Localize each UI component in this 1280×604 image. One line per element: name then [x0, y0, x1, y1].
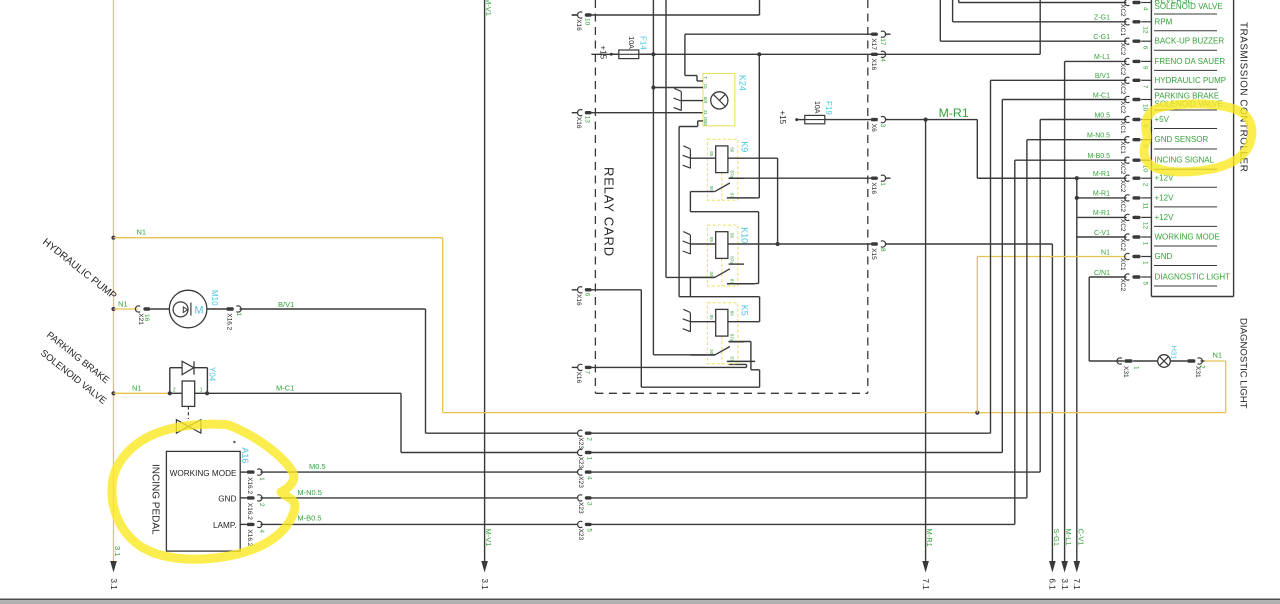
svg-text:13: 13 [583, 116, 590, 124]
svg-text:1: 1 [586, 457, 593, 461]
svg-text:X23: X23 [577, 457, 584, 469]
svg-text:3: 3 [586, 502, 593, 506]
svg-text:7.1: 7.1 [921, 579, 930, 591]
svg-text:C/N1: C/N1 [1094, 270, 1110, 277]
svg-text:6.1: 6.1 [1048, 579, 1057, 591]
svg-text:M-B0.5: M-B0.5 [297, 514, 321, 523]
svg-text:M-V1: M-V1 [484, 529, 493, 547]
svg-text:A16: A16 [240, 447, 250, 463]
svg-text:M-R1: M-R1 [925, 529, 934, 547]
svg-text:SOLENOID VALVE: SOLENOID VALVE [1155, 2, 1223, 11]
svg-text:N1: N1 [118, 299, 128, 308]
svg-text:XC2: XC2 [1119, 162, 1126, 175]
svg-text:6: 6 [583, 293, 590, 297]
svg-text:2: 2 [258, 503, 265, 507]
svg-text:LAMP.: LAMP. [213, 521, 237, 530]
svg-text:2: 2 [586, 437, 593, 441]
svg-text:17: 17 [879, 38, 886, 46]
svg-text:12: 12 [1142, 26, 1149, 34]
svg-text:N1: N1 [1101, 249, 1110, 256]
svg-text:X16: X16 [575, 19, 582, 31]
svg-text:M-B0.5: M-B0.5 [1087, 153, 1110, 160]
svg-text:T: T [703, 76, 708, 79]
svg-text:M-R1: M-R1 [1093, 191, 1110, 198]
svg-text:86: 86 [730, 147, 735, 153]
svg-text:N1: N1 [1213, 350, 1223, 359]
svg-text:+15: +15 [598, 46, 607, 60]
svg-text:+5V: +5V [1155, 115, 1170, 124]
svg-text:C-V1: C-V1 [1094, 230, 1110, 237]
svg-text:85: 85 [709, 315, 714, 321]
svg-text:12: 12 [1142, 222, 1149, 230]
svg-text:30: 30 [709, 186, 714, 192]
svg-text:M: M [194, 305, 203, 317]
svg-text:X6: X6 [870, 124, 877, 132]
svg-text:XC2: XC2 [1119, 239, 1126, 252]
svg-text:S-G1: S-G1 [1052, 529, 1061, 547]
svg-text:C-G1: C-G1 [1093, 34, 1110, 41]
svg-text:GND: GND [218, 495, 236, 504]
svg-text:X17: X17 [870, 38, 877, 50]
svg-text:XC2: XC2 [1119, 101, 1126, 114]
svg-text:K10: K10 [739, 227, 749, 243]
svg-text:X16.2: X16.2 [246, 477, 253, 494]
svg-text:87a: 87a [730, 256, 735, 264]
svg-text:9: 9 [1142, 66, 1149, 70]
svg-text:1: 1 [879, 182, 886, 186]
svg-text:1: 1 [1142, 242, 1149, 246]
svg-text:HYDRAULIC PUMP: HYDRAULIC PUMP [1155, 76, 1227, 85]
svg-text:M-L1: M-L1 [1064, 529, 1073, 546]
svg-text:XC2: XC2 [1119, 43, 1126, 56]
svg-text:WORKING MODE: WORKING MODE [1155, 233, 1220, 242]
svg-text:WORKING MODE: WORKING MODE [170, 469, 237, 478]
svg-text:7: 7 [1142, 85, 1149, 89]
svg-text:XC2: XC2 [1119, 279, 1126, 292]
svg-text:B/V1: B/V1 [278, 300, 294, 309]
svg-text:10A: 10A [627, 36, 634, 49]
svg-text:K24: K24 [738, 75, 748, 91]
svg-text:DIAGNOSTIC LIGHT: DIAGNOSTIC LIGHT [1237, 318, 1248, 409]
svg-text:87a: 87a [730, 334, 735, 342]
svg-text:C-V1: C-V1 [1076, 529, 1085, 546]
svg-text:4: 4 [1142, 7, 1149, 11]
svg-text:5: 5 [586, 528, 593, 532]
svg-text:M-C1: M-C1 [276, 384, 294, 393]
svg-text:GND SENSOR: GND SENSOR [1155, 135, 1209, 144]
svg-text:GND: GND [1155, 252, 1173, 261]
svg-text:M-N0.5: M-N0.5 [297, 488, 322, 497]
svg-text:M0.5: M0.5 [1094, 112, 1110, 119]
svg-text:4: 4 [879, 58, 886, 62]
svg-text:M10: M10 [210, 290, 219, 306]
svg-text:10A: 10A [813, 101, 820, 114]
svg-text:M-R1: M-R1 [1093, 171, 1110, 178]
svg-text:Z-G1: Z-G1 [1094, 15, 1110, 22]
svg-text:50f: 50f [703, 97, 708, 104]
svg-text:M-V1: M-V1 [484, 0, 493, 16]
svg-text:3.1: 3.1 [113, 546, 122, 556]
svg-text:X23: X23 [577, 529, 584, 541]
svg-text:85: 85 [709, 151, 714, 157]
svg-text:30: 30 [709, 349, 714, 355]
svg-text:X23: X23 [577, 502, 584, 514]
svg-text:1: 1 [200, 387, 203, 393]
svg-text:30: 30 [709, 271, 714, 277]
svg-text:XC2: XC2 [1119, 82, 1126, 95]
svg-text:X16: X16 [870, 182, 877, 194]
svg-text:M-R1: M-R1 [939, 106, 969, 120]
svg-text:M-N0.5: M-N0.5 [1087, 133, 1110, 140]
svg-text:1: 1 [258, 477, 265, 481]
svg-text:K5: K5 [739, 305, 749, 316]
svg-text:87a: 87a [730, 170, 735, 178]
svg-text:DIAGNOSTIC LIGHT: DIAGNOSTIC LIGHT [1155, 273, 1231, 282]
svg-text:5: 5 [1142, 282, 1149, 286]
svg-text:DB5: DB5 [703, 117, 708, 126]
svg-text:2: 2 [1142, 183, 1149, 187]
svg-text:X16: X16 [575, 372, 582, 384]
svg-text:4: 4 [586, 476, 593, 480]
svg-text:1: 1 [1133, 366, 1140, 370]
svg-text:7.1: 7.1 [1072, 579, 1081, 591]
svg-text:X16.2: X16.2 [226, 313, 233, 330]
svg-text:X23: X23 [577, 476, 584, 488]
svg-text:B/V1: B/V1 [1095, 73, 1110, 80]
svg-text:XC1: XC1 [1119, 23, 1126, 36]
svg-text:K9: K9 [739, 141, 749, 152]
svg-text:8: 8 [879, 248, 886, 252]
svg-text:X16: X16 [870, 59, 877, 71]
svg-text:X16: X16 [575, 294, 582, 306]
svg-text:N1: N1 [137, 228, 147, 237]
svg-text:+12V: +12V [1155, 213, 1175, 222]
svg-text:XC1: XC1 [1119, 141, 1126, 154]
svg-text:XC2: XC2 [1119, 4, 1126, 17]
svg-text:6: 6 [1142, 46, 1149, 50]
svg-text:2: 2 [173, 387, 176, 393]
svg-text:3: 3 [879, 124, 886, 128]
svg-text:4: 4 [258, 529, 265, 533]
svg-text:1: 1 [1142, 261, 1149, 265]
svg-text:F19: F19 [824, 101, 833, 115]
svg-text:+15: +15 [778, 111, 787, 125]
svg-text:XC2: XC2 [1119, 180, 1126, 193]
svg-text:M-R1: M-R1 [1093, 210, 1110, 217]
svg-text:10: 10 [583, 18, 590, 26]
svg-text:Y04: Y04 [208, 367, 217, 382]
svg-text:X21: X21 [137, 313, 144, 325]
svg-text:87: 87 [730, 356, 735, 362]
svg-text:X16.2: X16.2 [246, 503, 253, 520]
svg-text:XC2: XC2 [1119, 199, 1126, 212]
svg-text:M-L1: M-L1 [1094, 54, 1110, 61]
svg-text:X16: X16 [575, 117, 582, 129]
svg-text:X16.2: X16.2 [246, 529, 253, 546]
svg-text:INCING PEDAL: INCING PEDAL [150, 464, 161, 535]
svg-text:RPM: RPM [1155, 17, 1173, 26]
svg-text:+12V: +12V [1155, 193, 1175, 202]
svg-text:85: 85 [709, 237, 714, 243]
svg-text:86: 86 [730, 311, 735, 317]
svg-text:INCING SIGNAL: INCING SIGNAL [1155, 156, 1215, 165]
svg-text:11: 11 [1142, 202, 1149, 209]
svg-text:FRENO DA SAUER: FRENO DA SAUER [1155, 57, 1226, 66]
svg-text:87: 87 [730, 193, 735, 199]
svg-text:86: 86 [730, 233, 735, 239]
svg-text:16: 16 [143, 314, 150, 322]
svg-text:3.1: 3.1 [1060, 579, 1069, 591]
svg-text:XC2: XC2 [1119, 219, 1126, 232]
svg-text:F14: F14 [638, 36, 647, 50]
svg-text:87: 87 [730, 279, 735, 285]
svg-text:XC1: XC1 [1119, 121, 1126, 134]
svg-text:N1: N1 [132, 384, 142, 393]
svg-text:X23: X23 [577, 437, 584, 449]
svg-text:M-C1: M-C1 [1093, 92, 1110, 99]
svg-text:1: 1 [235, 313, 242, 317]
svg-text:XC2: XC2 [1119, 63, 1126, 76]
svg-text:7: 7 [583, 370, 590, 374]
svg-text:XC1: XC1 [1119, 258, 1126, 271]
svg-text:X15: X15 [870, 248, 877, 260]
svg-text:31: 31 [703, 110, 708, 116]
svg-text:3.1: 3.1 [109, 579, 118, 591]
svg-text:RELAY CARD: RELAY CARD [602, 167, 617, 257]
svg-text:2: 2 [1199, 365, 1206, 369]
svg-text:M0.5: M0.5 [309, 462, 326, 471]
svg-text:3.1: 3.1 [480, 579, 489, 591]
svg-text:15: 15 [703, 84, 708, 90]
svg-text:X31: X31 [1122, 366, 1129, 378]
svg-text:BACK-UP BUZZER: BACK-UP BUZZER [1155, 37, 1225, 46]
svg-text:H31: H31 [1169, 346, 1178, 360]
